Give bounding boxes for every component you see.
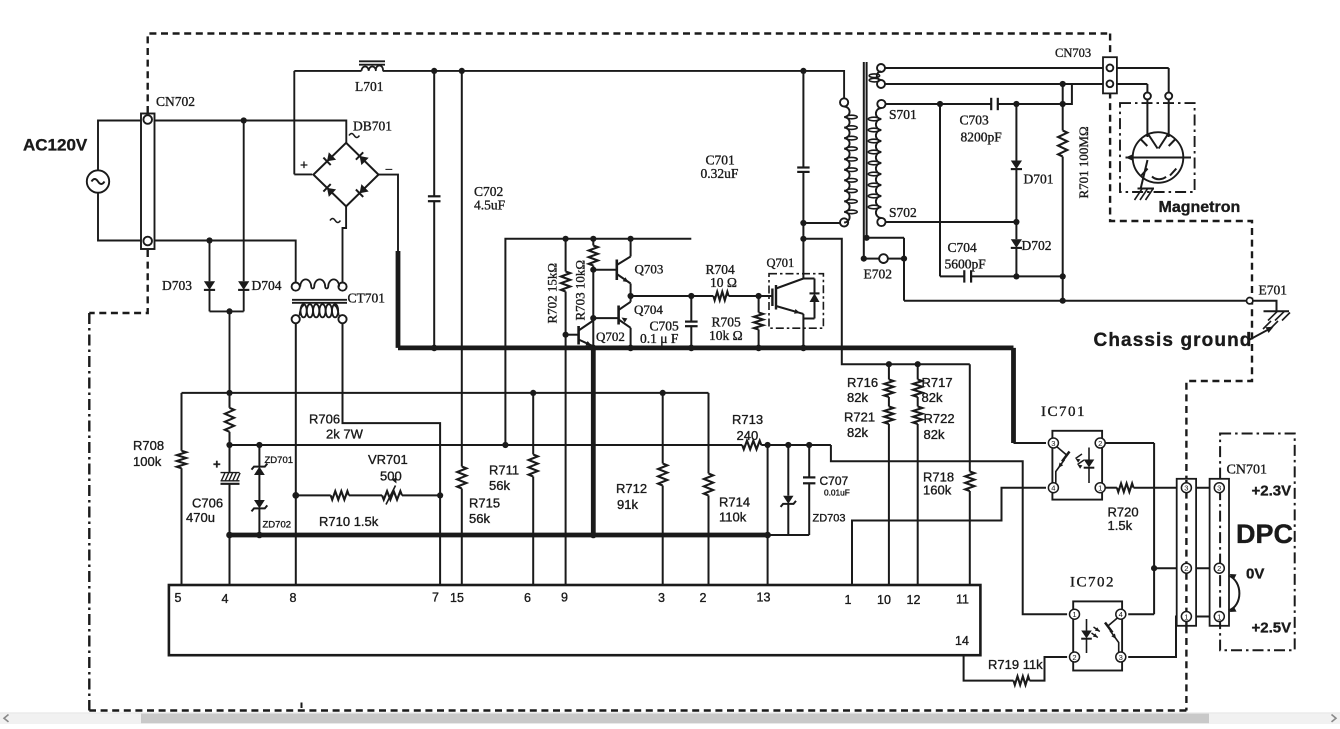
svg-text:+2.5V: +2.5V	[1252, 620, 1292, 637]
svg-text:−: −	[385, 163, 393, 178]
svg-text:R716: R716	[847, 375, 878, 390]
svg-text:D703: D703	[162, 278, 192, 293]
svg-text:1: 1	[1072, 610, 1076, 619]
svg-text:R703 10kΩ: R703 10kΩ	[573, 260, 588, 321]
svg-text:C703: C703	[960, 113, 990, 128]
svg-text:R717: R717	[922, 375, 953, 390]
svg-text:0.1 μ F: 0.1 μ F	[640, 331, 679, 346]
svg-text:D704: D704	[252, 278, 282, 293]
svg-text:IC702: IC702	[1070, 575, 1115, 591]
svg-text:R712: R712	[616, 481, 647, 496]
svg-text:Chassis ground: Chassis ground	[1094, 330, 1253, 351]
svg-text:R714: R714	[719, 495, 750, 510]
svg-text:Q701: Q701	[767, 256, 795, 270]
svg-text:R701 100MΩ: R701 100MΩ	[1076, 126, 1091, 198]
svg-text:Q702: Q702	[596, 329, 625, 344]
svg-text:1: 1	[1217, 613, 1221, 622]
svg-text:7: 7	[432, 591, 439, 605]
svg-text:L701: L701	[355, 79, 384, 94]
svg-text:CN703: CN703	[1055, 46, 1091, 60]
svg-text:Magnetron: Magnetron	[1159, 199, 1241, 216]
svg-text:5: 5	[175, 591, 182, 605]
svg-text:IC701: IC701	[1041, 404, 1086, 420]
svg-text:2: 2	[1098, 439, 1102, 448]
svg-text:1: 1	[845, 593, 852, 607]
svg-text:3: 3	[1051, 439, 1055, 448]
svg-text:2: 2	[1217, 564, 1221, 573]
svg-text:R713: R713	[732, 412, 763, 427]
svg-text:D702: D702	[1022, 238, 1052, 253]
svg-text:100k: 100k	[133, 454, 162, 469]
svg-text:82k: 82k	[922, 390, 943, 405]
svg-text:4: 4	[1051, 484, 1055, 493]
svg-text:3: 3	[1217, 484, 1221, 493]
svg-text:1.5k: 1.5k	[1108, 518, 1133, 533]
svg-text:D701: D701	[1024, 172, 1054, 187]
svg-text:2: 2	[1184, 564, 1188, 573]
svg-text:470u: 470u	[186, 510, 215, 525]
svg-text:14: 14	[955, 634, 969, 648]
svg-text:ZD701: ZD701	[265, 455, 294, 466]
svg-text:0V: 0V	[1246, 566, 1264, 583]
svg-text:3: 3	[1184, 484, 1188, 493]
svg-text:13: 13	[757, 591, 771, 605]
svg-text:10 Ω: 10 Ω	[710, 275, 737, 290]
svg-text:R719 11k: R719 11k	[988, 657, 1043, 672]
svg-text:+2.3V: +2.3V	[1252, 483, 1292, 500]
svg-text:0.32uF: 0.32uF	[701, 166, 739, 181]
svg-text:R710 1.5k: R710 1.5k	[319, 514, 379, 529]
svg-text:10k Ω: 10k Ω	[709, 328, 743, 343]
svg-text:3: 3	[658, 591, 665, 605]
svg-text:CT701: CT701	[348, 291, 386, 306]
svg-text:1: 1	[1098, 484, 1102, 493]
svg-text:S701: S701	[889, 107, 917, 122]
svg-text:DB701: DB701	[353, 119, 392, 134]
svg-text:4.5uF: 4.5uF	[474, 198, 506, 213]
svg-text:15: 15	[450, 591, 464, 605]
svg-text:5600pF: 5600pF	[945, 257, 987, 272]
svg-text:82k: 82k	[847, 390, 868, 405]
svg-text:AC120V: AC120V	[23, 136, 88, 155]
svg-text:10: 10	[877, 593, 891, 607]
svg-text:82k: 82k	[847, 425, 868, 440]
svg-text:8: 8	[290, 591, 297, 605]
svg-text:CN701: CN701	[1227, 463, 1267, 478]
svg-text:3: 3	[1119, 653, 1123, 662]
svg-text:C707: C707	[820, 474, 849, 488]
svg-text:11: 11	[956, 593, 969, 607]
svg-text:0.01uF: 0.01uF	[824, 488, 850, 498]
svg-text:C706: C706	[192, 496, 223, 511]
svg-text:82k: 82k	[924, 427, 945, 442]
svg-text:+: +	[300, 159, 308, 174]
svg-text:500: 500	[380, 469, 402, 484]
svg-text:2: 2	[1072, 653, 1076, 662]
svg-text:ZD703: ZD703	[813, 513, 846, 525]
svg-text:DPC: DPC	[1236, 519, 1293, 549]
svg-text:C704: C704	[948, 240, 978, 255]
svg-text:Q704: Q704	[634, 302, 663, 317]
svg-text:91k: 91k	[617, 497, 638, 512]
svg-text:R721: R721	[844, 410, 875, 425]
svg-text:+: +	[213, 457, 221, 472]
svg-text:R706: R706	[309, 412, 340, 427]
svg-text:8200pF: 8200pF	[961, 130, 1003, 145]
svg-text:160k: 160k	[923, 483, 952, 498]
svg-text:4: 4	[222, 592, 229, 606]
svg-text:R722: R722	[924, 411, 955, 426]
svg-text:S702: S702	[889, 205, 917, 220]
svg-text:9: 9	[561, 591, 568, 605]
svg-text:ZD702: ZD702	[263, 520, 292, 531]
svg-text:R711: R711	[489, 463, 519, 478]
svg-text:6: 6	[524, 591, 531, 605]
svg-text:56k: 56k	[489, 478, 510, 493]
svg-text:1: 1	[1184, 613, 1188, 622]
svg-text:12: 12	[907, 593, 921, 607]
svg-text:E701: E701	[1259, 283, 1288, 298]
svg-text:CN702: CN702	[156, 94, 195, 109]
svg-text:110k: 110k	[719, 510, 747, 525]
svg-text:2: 2	[700, 591, 707, 605]
svg-text:R715: R715	[469, 496, 500, 511]
svg-text:2k 7W: 2k 7W	[326, 427, 364, 442]
svg-text:R708: R708	[133, 438, 164, 453]
svg-text:56k: 56k	[469, 511, 490, 526]
svg-text:Q703: Q703	[635, 262, 664, 277]
svg-text:E702: E702	[864, 267, 893, 282]
svg-text:R702 15kΩ: R702 15kΩ	[545, 263, 560, 324]
svg-text:240: 240	[737, 428, 759, 443]
svg-text:4: 4	[1119, 610, 1123, 619]
svg-text:VR701: VR701	[368, 452, 408, 467]
